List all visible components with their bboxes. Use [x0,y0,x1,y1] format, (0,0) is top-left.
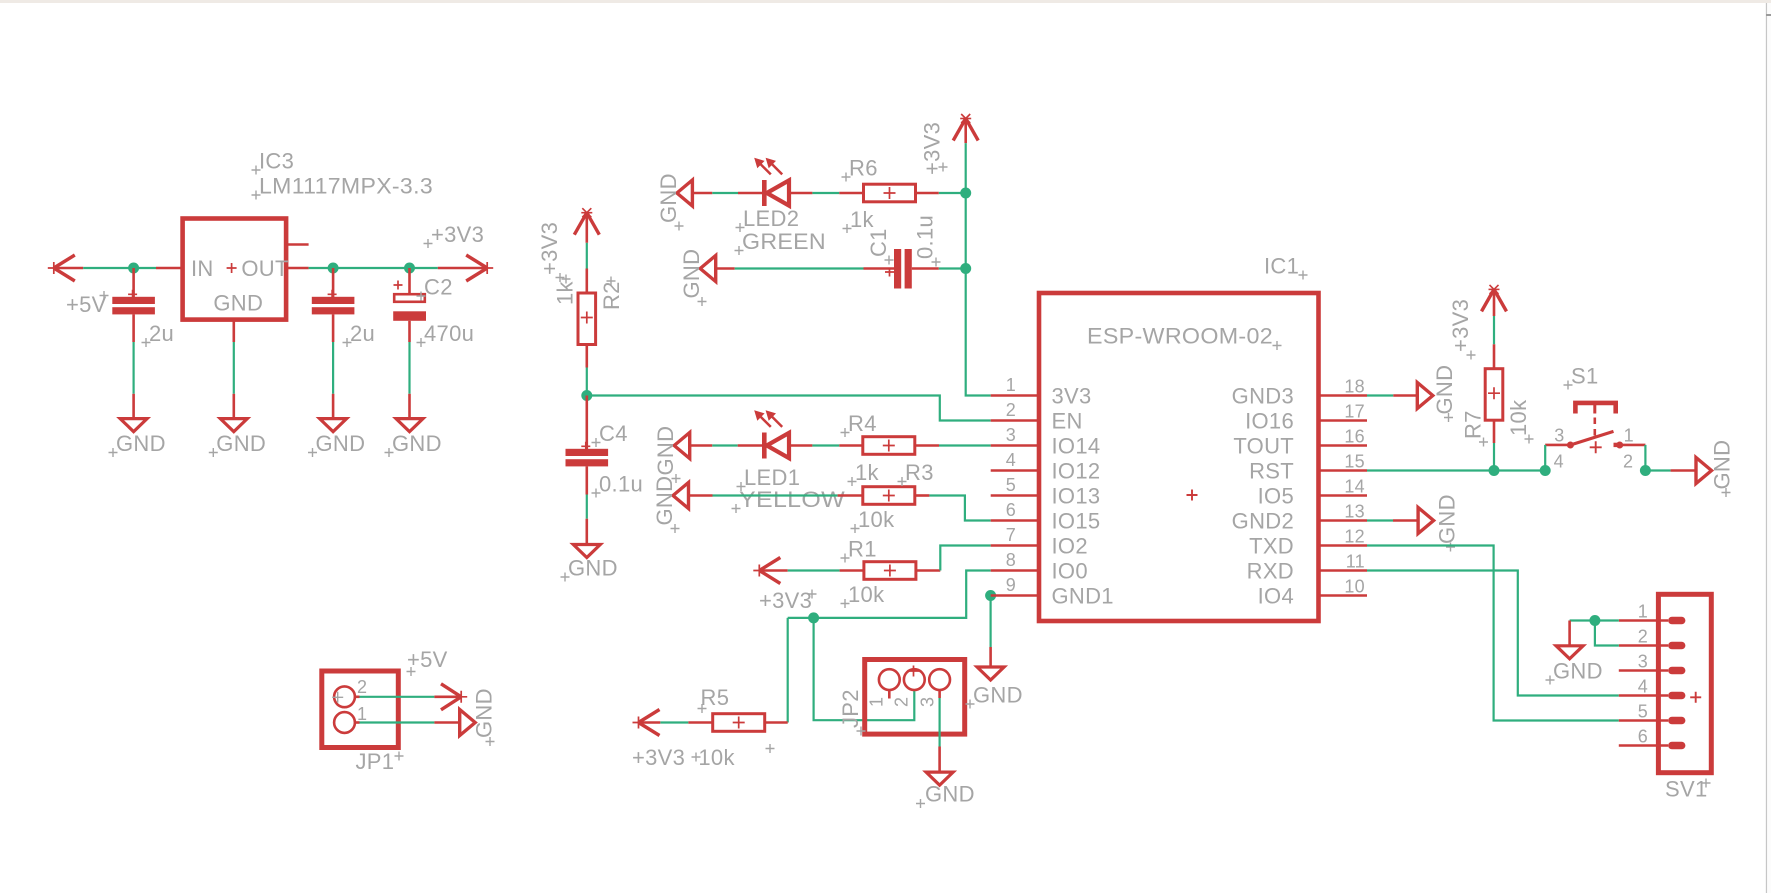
pin 2 stub [991,419,1039,422]
pin 7 stub [991,544,1039,547]
svg-text:470u: 470u [424,321,474,346]
ground (R3) [673,483,689,509]
svg-text:7: 7 [1006,525,1016,545]
svg-text:R4: R4 [848,411,877,436]
svg-text:IO13: IO13 [1052,484,1101,509]
pin stub JP2-1 [888,690,891,699]
LED2 GREEN [762,180,767,206]
wire SV1 pin1 GND net [1570,619,1619,621]
wire IO0 net [788,571,991,618]
wire R1 left [788,569,840,571]
wire C-in to GND [133,342,135,394]
svg-text:3: 3 [918,697,938,707]
node OUT / C2u junction [328,263,339,274]
ground (C2) [396,419,423,432]
wire IN pin stub [156,267,183,270]
svg-text:IN: IN [191,256,214,281]
pin SV1-5 [1619,719,1668,722]
svg-text:JP1: JP1 [356,749,395,774]
svg-text:3: 3 [1554,426,1564,446]
+5V input arrow [54,255,75,268]
svg-text:15: 15 [1344,452,1365,472]
svg-text:GND: GND [216,431,266,456]
svg-text:GND: GND [973,683,1023,708]
svg-text:R1: R1 [848,537,877,562]
svg-text:+3V3: +3V3 [537,222,562,275]
wire to GND (SV1) [1568,621,1571,646]
pin SV1-3 [1619,669,1668,672]
svg-text:6: 6 [1006,500,1016,520]
resistor R1 10k [864,562,916,580]
svg-text:EN: EN [1052,409,1083,434]
pin 11 stub [1319,569,1368,572]
svg-text:IO0: IO0 [1052,559,1088,584]
pin 18 stub [1319,394,1368,397]
svg-text:GND: GND [392,431,442,456]
regulator IC3 LM1117MPX-3.3 body [183,219,287,320]
pin stub (IC3 unconnected tab) [286,243,309,246]
svg-text:GND: GND [653,426,678,476]
+3V3 supply arrow (R7) [1482,289,1495,311]
svg-text:5: 5 [1638,702,1648,722]
node +5V / C-in junction [128,263,139,274]
svg-text:2: 2 [892,697,912,707]
svg-text:GND: GND [652,476,677,526]
svg-text:17: 17 [1344,402,1365,422]
connector SV1 [1658,594,1711,772]
svg-text:1: 1 [866,697,886,707]
ground (GND3) [1417,383,1433,409]
svg-text:GND: GND [1553,659,1603,684]
+5V supply arrow (JP1) [441,684,461,697]
svg-text:R5: R5 [701,685,730,710]
node RST / R7 junction [1489,465,1500,476]
wire LED2 cathode net [692,192,712,195]
pin 8 stub [991,569,1039,572]
ground (C4) [573,545,600,558]
pin SV1-4 [1619,694,1668,697]
svg-text:IO5: IO5 [1258,484,1294,509]
svg-text:2: 2 [357,677,367,697]
svg-text:0.1u: 0.1u [599,472,643,497]
pin 1 stub [991,394,1039,397]
wire LED1 cathode net [690,444,713,447]
svg-text:IO12: IO12 [1052,459,1101,484]
svg-text:R6: R6 [849,156,878,181]
svg-text:TXD: TXD [1249,534,1294,559]
ground (SV1) [1556,646,1583,659]
wire C2 to GND [408,321,411,342]
svg-text:GND: GND [656,173,681,223]
ground (LED2) [677,180,693,206]
svg-text:OUT: OUT [241,256,288,281]
svg-text:4: 4 [1554,451,1564,471]
ground (output cap 2u) [320,419,347,432]
svg-text:C1: C1 [866,228,891,257]
svg-text:11: 11 [1346,552,1365,572]
svg-text:6: 6 [1638,727,1648,747]
resistor R3 10k [863,487,915,505]
svg-text:C2: C2 [424,275,453,300]
pin SV1-2 [1619,644,1668,647]
svg-text:LM1117MPX-3.3: LM1117MPX-3.3 [259,174,433,199]
svg-text:1: 1 [1006,375,1016,395]
svg-text:0.1u: 0.1u [913,215,938,259]
node EN net junction [581,390,592,401]
right frame line [1766,3,1768,893]
svg-text:2u: 2u [350,321,375,346]
ground (S1) [1696,458,1712,484]
svg-text:+3V3: +3V3 [1448,299,1473,352]
capacitor C2 470u electrolytic [408,268,411,294]
svg-text:4: 4 [1006,450,1016,470]
svg-text:GND: GND [1434,494,1459,544]
svg-text:18: 18 [1344,377,1365,397]
capacitor 2u (input) [132,268,135,297]
+3V3 output arrow [438,267,487,270]
svg-text:3V3: 3V3 [1052,384,1092,409]
node R6 / +3V3 junction [960,188,971,199]
wire RST net [1367,469,1545,471]
svg-text:GND: GND [679,249,704,299]
svg-text:1: 1 [1638,602,1648,622]
svg-text:YELLOW: YELLOW [739,487,845,512]
node C1 / +3V3 junction [960,263,971,274]
svg-text:2u: 2u [149,321,174,346]
wire R4 to pin 3 [915,444,939,447]
svg-text:GND: GND [316,431,366,456]
svg-text:2: 2 [1006,400,1016,420]
wire R6 to +3V3 [916,192,939,195]
wire JP2 pin2 branch [814,618,915,720]
svg-text:10k: 10k [848,582,885,607]
node RST / S1 pin4 junction [1540,465,1551,476]
capacitor C4 0.1u [585,396,588,450]
svg-text:GND: GND [925,782,975,807]
svg-text:3: 3 [1638,652,1648,672]
svg-text:+3V3: +3V3 [431,222,484,247]
wire R7 top [1493,316,1495,344]
svg-text:GND: GND [213,291,263,316]
svg-text:10k: 10k [1506,399,1531,436]
node OUT / C470u junction [404,263,415,274]
svg-text:TOUT: TOUT [1233,434,1294,459]
pin 5 stub [991,494,1039,497]
connector JP1 [322,671,399,748]
svg-text:IO15: IO15 [1052,509,1101,534]
ground (JP2 pin3) [926,772,953,785]
resistor R4 1k [863,437,915,455]
pin 16 stub [1319,444,1368,447]
pin 15 stub [1319,469,1368,472]
svg-text:13: 13 [1344,502,1365,522]
wire EN net to pin 2 [587,396,991,421]
svg-text:R7: R7 [1460,410,1485,439]
svg-text:5: 5 [1006,475,1016,495]
svg-text:C4: C4 [599,421,628,446]
ground (GND1) [977,667,1004,680]
pin SV1-6 [1619,744,1668,747]
svg-text:IC3: IC3 [259,149,294,174]
pin 14 stub [1319,494,1368,497]
svg-text:16: 16 [1344,427,1365,447]
pin 10 stub [1319,594,1368,597]
svg-text:IO14: IO14 [1052,434,1101,459]
pin 6 stub [991,519,1039,522]
wire OUT net [286,267,309,270]
svg-text:IO16: IO16 [1245,409,1294,434]
resistor R7 10k [1485,369,1503,421]
pin SV1-1 [1619,619,1668,622]
node S1 pin2 / GND junction [1640,465,1651,476]
resistor R2 1k [578,293,596,345]
wire R3 left [689,494,713,497]
S1 pin 3/4 bracket [1545,444,1570,447]
+3V3 supply arrow (vertical net) [953,119,966,141]
svg-text:+3V3: +3V3 [759,588,812,613]
svg-text:3: 3 [1006,425,1016,445]
pin 9 stub [991,594,1039,597]
wire C1 left [716,267,735,270]
node IO0 / JP2 junction [808,612,819,623]
ground (IC3 GND pin) [233,320,236,342]
svg-text:IC1: IC1 [1264,254,1299,279]
svg-text:GND: GND [472,688,497,738]
wire R2 top [586,243,588,269]
resistor R6 1k [864,184,916,202]
wire R3 to pin 6 [915,494,930,497]
capacitor 2u (output) [332,268,335,297]
pin 13 stub [1319,519,1368,522]
wire SV1 pin2 branch [1595,621,1619,646]
svg-text:1k: 1k [553,280,578,305]
svg-text:GND2: GND2 [1232,509,1294,534]
pin 17 stub [1319,419,1368,422]
svg-text:10k: 10k [698,745,735,770]
wire RXD to SV1 pin4 [1367,571,1619,696]
svg-text:ESP-WROOM-02: ESP-WROOM-02 [1087,324,1273,349]
svg-text:S1: S1 [1571,364,1599,389]
svg-text:GND: GND [1710,440,1735,490]
svg-text:1: 1 [357,704,367,724]
svg-text:4: 4 [1638,677,1648,697]
svg-text:1: 1 [1624,426,1634,446]
svg-text:GND3: GND3 [1232,384,1294,409]
pin 4 stub [991,469,1039,472]
wire JP1 pin1 to GND [355,721,360,724]
svg-text:2: 2 [1638,627,1648,647]
wire R7 bottom [1493,420,1496,443]
svg-text:R2: R2 [599,281,624,310]
wire +5V input net [83,267,156,269]
ground (input cap) [120,419,147,432]
wire LED1 to R4 [789,444,812,447]
S1 pin 1/2 bracket [1620,444,1646,447]
wire R1 to pin 7 [916,569,940,572]
ground (LED1) [674,433,690,459]
wire S1 pin2 to GND [1645,469,1670,471]
pin 12 stub [1319,544,1368,547]
svg-text:IO2: IO2 [1052,534,1088,559]
svg-text:GND: GND [116,431,166,456]
LED1 YELLOW [762,433,767,459]
svg-text:R3: R3 [905,460,934,485]
svg-text:JP2: JP2 [838,689,863,728]
ground (JP1) [460,710,476,736]
svg-text:1k: 1k [855,460,880,485]
wire JP1 pin2 to +5V [355,695,360,698]
wire pin18 GND3 [1367,394,1393,396]
IC1 ESP-WROOM-02 body [1039,293,1319,621]
wire TXD to SV1 pin5 [1367,546,1619,721]
wire LED2 to R6 [789,192,812,195]
+3V3 supply arrow (R2) [574,213,587,235]
+3V3 supply arrow (R1) [759,558,780,571]
svg-text:9: 9 [1006,575,1016,595]
wire pin13 GND2 [1367,519,1393,521]
wire JP2 pin3 to GND [938,690,941,698]
wire GND1 pin 9 [985,590,996,601]
svg-text:GREEN: GREEN [742,229,826,254]
svg-text:GND: GND [568,556,618,581]
svg-text:8: 8 [1006,550,1016,570]
capacitor C1 0.1u [894,249,901,289]
resistor R5 10k [765,721,788,724]
svg-text:LED2: LED2 [743,206,799,231]
svg-text:GND1: GND1 [1052,584,1114,609]
svg-text:10: 10 [1344,577,1365,597]
svg-text:SV1: SV1 [1665,777,1707,802]
wire +3V3 vertical net to pin 1 [966,143,991,395]
svg-text:RST: RST [1249,459,1294,484]
svg-text:2: 2 [1623,451,1633,471]
connector JP2 [865,660,965,735]
wire R2 bottom [585,345,588,368]
svg-text:1k: 1k [850,207,875,232]
ground (C1) [700,256,716,282]
svg-text:14: 14 [1344,477,1365,497]
svg-text:+5V: +5V [407,647,448,672]
svg-text:+3V3: +3V3 [632,745,685,770]
svg-text:10k: 10k [858,507,895,532]
svg-text:IO4: IO4 [1258,584,1294,609]
ground (GND2) [1418,508,1434,534]
svg-text:RXD: RXD [1247,559,1294,584]
+3V3 supply arrow (R5) [688,721,712,724]
pin 3 stub [991,444,1039,447]
wire C4 to GND [585,466,588,494]
svg-text:GND: GND [1432,365,1457,415]
wire C1 right to +3V3 [912,267,939,270]
node SV1 pin1/pin2 junction [1589,615,1600,626]
wire C-out to GND [332,342,334,394]
svg-text:12: 12 [1344,527,1365,547]
top window strip [0,0,1771,3]
